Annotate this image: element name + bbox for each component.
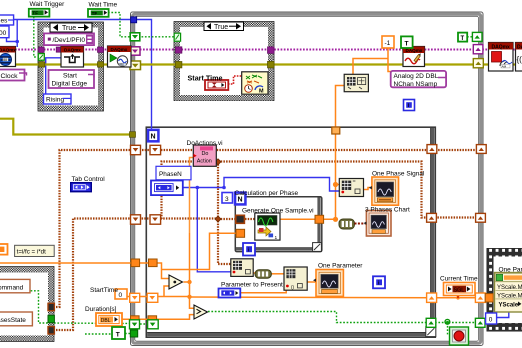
tunnel: orange for-loop top (t wire) bbox=[332, 127, 340, 134]
svg-text:Tab Control: Tab Control bbox=[72, 176, 106, 183]
case structure 1 (Start Digital Edge) bbox=[38, 22, 104, 111]
wire: rust error up-branch to DoActions bbox=[162, 162, 219, 220]
tunnel: rust while right y148 (out) bbox=[476, 145, 486, 154]
wire: green PhasesState from case3 bbox=[0, 37, 473, 334]
tunnel: orange while right y297 (out) bbox=[475, 293, 485, 302]
case structure 2 (Start Time / wait) bbox=[174, 22, 274, 101]
svg-text:DA: DA bbox=[517, 45, 522, 51]
tunnel: rust error pair y219 bbox=[131, 215, 141, 224]
svg-text:DAQmx: DAQmx bbox=[0, 48, 16, 53]
waveform pill wire segment (to 3 Phases Chart) bbox=[339, 219, 354, 229]
svg-text:ommand: ommand bbox=[0, 284, 24, 291]
expression node: t=i/fc = i*dt bbox=[15, 245, 55, 256]
wire: orange parameter chain bbox=[240, 273, 316, 293]
tunnel: blue samples into while loop bbox=[131, 17, 137, 23]
svg-text:Digital Edge: Digital Edge bbox=[52, 81, 88, 88]
svg-text:88: 88 bbox=[3, 58, 7, 62]
svg-text:0: 0 bbox=[119, 292, 123, 299]
tunnel: olive loop right (out) bbox=[473, 59, 483, 68]
svg-text:Start Time: Start Time bbox=[188, 74, 223, 83]
tunnel: olive lower on loop left bbox=[130, 132, 136, 138]
Build waveform icon A (for One Phase Signal) bbox=[339, 179, 363, 197]
DAQmx start task VI (AM wait) bbox=[108, 46, 132, 67]
3 Phases Chart indicator icon bbox=[364, 211, 391, 237]
wire: rust error wire DoActions out to right tunnels bbox=[214, 149, 477, 151]
tunnel: purple case1 right bbox=[98, 47, 104, 52]
terminal: Wait Time (green boolean) bbox=[88, 9, 109, 17]
Build waveform icon B (parameters) bbox=[231, 259, 253, 277]
tunnel: rust for-loop right y148 (out) bbox=[427, 145, 437, 154]
tunnel: olive shift-reg on loop left bbox=[130, 61, 141, 70]
tunnel: purple case2 right bbox=[268, 47, 275, 54]
tunnel: green pair y324 bbox=[130, 320, 140, 329]
svg-text:T: T bbox=[405, 40, 409, 47]
tunnel: purple loop right (out) bbox=[473, 45, 483, 54]
for loop corner glyph bbox=[426, 327, 436, 337]
triangle op: multiply (i*dt) bbox=[169, 275, 183, 289]
wire: purple channel name bus (dotted) bbox=[15, 49, 489, 51]
terminal: Duration[s] bbox=[96, 313, 122, 326]
svg-text:N: N bbox=[151, 134, 156, 141]
tunnel: green into case2 bbox=[174, 33, 180, 41]
wire: rust error from DoActions down to Build Waveform bbox=[218, 162, 231, 265]
svg-text:Current Time: Current Time bbox=[440, 276, 478, 283]
constant: T (green, bottom left) bbox=[112, 327, 125, 339]
stop button (while loop conditional terminal) bbox=[450, 327, 469, 345]
constant: T (green, near read VI) bbox=[401, 36, 413, 48]
svg-text:3 Phases Chart: 3 Phases Chart bbox=[365, 206, 410, 213]
junction: green ring near stop bbox=[445, 319, 450, 324]
constant: T (green, right edge of loop) bbox=[458, 33, 467, 42]
junction: orange dot under current time bbox=[456, 296, 460, 300]
svg-text:One Parameter: One Parameter bbox=[318, 263, 363, 270]
tunnel: purple small square left of DAQmx2 bbox=[56, 47, 61, 52]
tunnel: green T const y333 bbox=[130, 330, 137, 337]
tunnel: green loop right top (out) bbox=[472, 32, 482, 41]
tunnel: rust error in pair on left borders y148 bbox=[131, 145, 141, 154]
tunnel: purple shift-reg on loop left bbox=[130, 47, 140, 55]
wire: orange DoActions t output down bbox=[190, 158, 194, 234]
tunnel: green wait-time on loop left bbox=[130, 33, 140, 41]
wire: green comparison output to stop bbox=[208, 312, 477, 335]
label: Start Digital Edge bbox=[49, 70, 95, 88]
constant: PhaseN enum bbox=[151, 181, 183, 196]
wire: orange one-phase waveform from Generate loop to chart icons bbox=[280, 185, 372, 220]
svg-text:Start: Start bbox=[63, 73, 77, 80]
Generate One Sample.vi bbox=[255, 213, 280, 241]
junction: blue dot under constants bbox=[15, 40, 19, 44]
svg-text:DAQmx: DAQmx bbox=[64, 48, 81, 53]
svg-text:DBL: DBL bbox=[101, 318, 111, 324]
tunnel: rust for-loop right y217 (out) bbox=[427, 213, 437, 222]
terminal: Start Time (red timestamp) bbox=[205, 80, 228, 90]
svg-text:asesState: asesState bbox=[0, 317, 26, 324]
svg-text:One Par: One Par bbox=[499, 266, 522, 273]
wire: rust error wire from Command case up left side bbox=[56, 150, 194, 307]
junction: blue dot PhaseN branch bbox=[196, 186, 200, 190]
terminal: i of calculation loop bbox=[243, 243, 255, 256]
wire: olive stub far right bbox=[513, 63, 522, 65]
tunnel: orange StartTime pair y296 bbox=[130, 293, 140, 302]
junction: orange dot at 335,184 bbox=[333, 182, 338, 187]
DAQmx create clock VI (left edge) bbox=[0, 47, 16, 67]
svg-text:True: True bbox=[214, 24, 228, 31]
junction: green dot bbox=[446, 321, 449, 324]
svg-text:TF: TF bbox=[92, 11, 98, 16]
terminal: i of for loop (bottom) bbox=[373, 276, 385, 288]
terminal: i of while loop (top right) bbox=[404, 100, 415, 111]
One Parameter chart indicator icon bbox=[313, 270, 343, 297]
terminal: Wait Trigger (green boolean) bbox=[29, 9, 50, 17]
svg-text:{(: {( bbox=[517, 55, 522, 64]
wire: red dashed from Start Time terminal to Wait VI bbox=[228, 76, 242, 84]
tunnel: case3 rust y330 bbox=[48, 327, 54, 334]
svg-text:Clock: Clock bbox=[1, 73, 19, 80]
junction: blue dot PhaseN corner bbox=[222, 186, 226, 190]
wire: olive DAQmx task bus bbox=[15, 63, 489, 65]
constant: Rising bbox=[44, 94, 72, 104]
tunnel: orange shift pair y263 bbox=[131, 259, 140, 267]
wire: blue numeric bus from "es"/"00" constants into loop to N bbox=[7, 20, 152, 130]
wire: dark red dynamic wire pill to chart bbox=[355, 223, 368, 225]
tunnel: purple case1 left bbox=[39, 47, 44, 52]
tunnel: case3 rust y307 bbox=[48, 303, 54, 310]
svg-text:/Dev1/PFI0: /Dev1/PFI0 bbox=[53, 37, 86, 44]
svg-text:es: es bbox=[1, 18, 9, 25]
constant: 0 (sequence) bbox=[486, 313, 497, 324]
tunnel: case3 green y319 bbox=[48, 315, 54, 322]
wire: orange t=i*dt chain bottom left bbox=[0, 233, 437, 319]
junction: orange dot at 335,219 bbox=[333, 217, 338, 222]
icon: orange node at left edge (cut) bbox=[0, 244, 8, 255]
while loop (outer) bbox=[131, 12, 484, 346]
terminal: Parameter to Present enum bbox=[219, 289, 241, 298]
svg-text:0: 0 bbox=[489, 317, 493, 324]
tunnel: rust while right y217 (out) bbox=[476, 213, 486, 222]
Wait for timestamp VI (in case 2) bbox=[242, 72, 268, 95]
wire: purple stub to DAQmx read far right bbox=[513, 49, 522, 51]
sequence structure (bottom-right, film border) bbox=[487, 249, 522, 332]
wire: blue PhaseN bus bbox=[183, 178, 340, 272]
svg-text:AM: AM bbox=[502, 65, 507, 69]
junction: rust diamond at DoActions out bbox=[215, 159, 221, 165]
terminal: Tab Control bbox=[71, 183, 92, 192]
tunnel: green while right y322 (out) bbox=[475, 318, 485, 327]
label: Analog 2D DBL / NChan NSamp bbox=[391, 71, 446, 88]
svg-text:Parameter to Present: Parameter to Present bbox=[221, 281, 283, 288]
svg-text:Action: Action bbox=[197, 159, 212, 165]
wire: rust error chain 2 from tunnels at y 219 bbox=[56, 219, 218, 331]
calculation-per-phase for loop bbox=[235, 197, 321, 252]
wire: long orange current time to sequence bbox=[437, 297, 489, 299]
wire: rust error out right at y161 down to tunnels y217 bbox=[218, 162, 477, 218]
svg-text:DAQmx: DAQmx bbox=[111, 47, 128, 52]
for loop (inner, with N) bbox=[146, 127, 436, 337]
terminal: N of calculation loop bbox=[235, 192, 247, 205]
svg-text:3: 3 bbox=[225, 196, 229, 203]
svg-text:Analog 2D DBL: Analog 2D DBL bbox=[394, 73, 439, 80]
svg-text:N: N bbox=[238, 196, 243, 203]
svg-text:TF: TF bbox=[32, 11, 38, 16]
svg-text:DoActions.vi: DoActions.vi bbox=[187, 140, 223, 147]
svg-text:00: 00 bbox=[0, 30, 7, 37]
svg-text:SGL: SGL bbox=[454, 287, 465, 293]
svg-text:True: True bbox=[62, 25, 76, 32]
svg-text:(): () bbox=[291, 285, 294, 290]
svg-text:Wait Trigger: Wait Trigger bbox=[30, 1, 66, 8]
constant: PhaseN label bbox=[156, 166, 191, 180]
junction: rust diamond at y219 bbox=[215, 216, 221, 222]
case structure 3 (Command / PhasesState, bottom-left) bbox=[0, 267, 54, 342]
wire: rust error to Generate VI bbox=[218, 218, 255, 220]
label: PhasesState (rust box) bbox=[0, 312, 32, 326]
svg-text:1: 1 bbox=[275, 235, 278, 241]
svg-text:Rising: Rising bbox=[46, 97, 64, 104]
svg-text:T: T bbox=[461, 36, 465, 42]
svg-text:M: M bbox=[259, 89, 264, 95]
waveform pill wire segment (parameter) bbox=[255, 270, 271, 278]
constant: -1 bbox=[382, 36, 394, 48]
wire: green boolean from Wait Trigger into case 1 bbox=[34, 17, 39, 58]
constant: StartTime 0 bbox=[115, 289, 127, 299]
wire: orange -1 to DAQmx read & waveform-parts icon bbox=[336, 48, 404, 219]
constant: 3 bbox=[222, 193, 233, 204]
svg-text:YScale: YScale bbox=[499, 303, 519, 309]
constant: "es" label box (cut) bbox=[0, 15, 14, 25]
svg-text:Generate One Sample.vi: Generate One Sample.vi bbox=[242, 208, 314, 215]
property node One Parameter YScale bbox=[495, 273, 522, 313]
case 1 selector "True" bbox=[50, 23, 92, 32]
tunnel: orange on sequence border bbox=[485, 294, 493, 302]
tunnel: purple case2 left bbox=[176, 47, 182, 53]
tunnel: orange for-loop right y297 (out) bbox=[427, 293, 437, 302]
tunnel: orange on calc loop left bbox=[236, 229, 245, 237]
svg-text:Wait Time: Wait Time bbox=[89, 1, 118, 8]
tunnel: green for-loop right y322 (out) bbox=[426, 318, 436, 327]
svg-text:One Phase Signal: One Phase Signal bbox=[372, 171, 425, 178]
tunnel: green case1 left bbox=[38, 54, 44, 61]
tunnel: olive case1 left bbox=[39, 62, 45, 67]
svg-text:StartTime: StartTime bbox=[90, 287, 118, 294]
triangle op: greater? (comparison) bbox=[194, 305, 208, 319]
tunnel: olive case2 left bbox=[176, 62, 182, 68]
DAQmx read VI (top right) bbox=[403, 47, 425, 67]
tunnel: olive case2 right bbox=[268, 61, 275, 68]
svg-text:t=i/fc = i*dt: t=i/fc = i*dt bbox=[17, 249, 47, 256]
junction: orange dots on vertical bbox=[187, 280, 191, 284]
svg-text:NChan NSamp: NChan NSamp bbox=[394, 81, 438, 88]
svg-text:Do: Do bbox=[202, 151, 209, 157]
DAQmx start digital edge VI bbox=[61, 47, 84, 68]
wire: blue rising-edge route inside case 1 bbox=[46, 58, 61, 95]
tunnel: olive case1 right bbox=[98, 62, 104, 67]
terminal: N of for loop bbox=[148, 129, 160, 142]
constant: /Dev1/PFI0 combo bbox=[44, 33, 94, 45]
svg-text:T: T bbox=[116, 331, 120, 338]
tunnel: rust on calc loop left bbox=[236, 215, 245, 223]
label: Command (rust box) bbox=[0, 279, 30, 292]
wire: olive task branch lower left bbox=[0, 119, 131, 135]
svg-text:PhaseN: PhaseN bbox=[159, 171, 182, 178]
wire: orange Current Time terminal stub bbox=[457, 295, 459, 298]
DAQmx clear task VI (far right edge, cut) bbox=[516, 43, 522, 72]
tunnel: orange Duration pair y319 bbox=[131, 316, 140, 324]
svg-text:DAQmx: DAQmx bbox=[492, 45, 511, 51]
Current Time indicator terminal bbox=[444, 283, 476, 296]
DoActions.vi (pink) bbox=[193, 145, 216, 166]
svg-text:AM: AM bbox=[119, 63, 124, 67]
label: Clock bbox=[0, 70, 27, 81]
Build waveform icon C (mean ptbypt) bbox=[284, 267, 307, 290]
DAQmx stop task VI (right of loop) bbox=[489, 43, 514, 72]
wire: blue 0 to YScale property bbox=[497, 302, 509, 318]
constant: "00" numeric box (cut) bbox=[0, 26, 9, 38]
case 2 selector "True" bbox=[204, 22, 244, 31]
One Phase Signal chart indicator icon bbox=[369, 177, 399, 205]
wire: green boolean from Wait Time into loop bbox=[108, 13, 174, 37]
svg-text:Duration[s]: Duration[s] bbox=[85, 306, 117, 313]
tunnel: orange calc loop right out bbox=[315, 215, 324, 223]
svg-text:-1: -1 bbox=[385, 40, 391, 47]
svg-text:Calculation per Phase: Calculation per Phase bbox=[235, 190, 299, 197]
Get waveform components icon bbox=[344, 74, 368, 91]
